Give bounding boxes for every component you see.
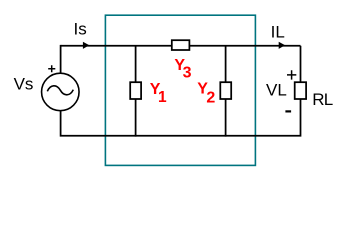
svg-text:3: 3 — [183, 65, 192, 82]
svg-text:2: 2 — [206, 89, 215, 106]
svg-text:Is: Is — [74, 20, 87, 39]
svg-text:IL: IL — [271, 22, 285, 41]
svg-text:Vs: Vs — [14, 75, 34, 94]
svg-text:1: 1 — [158, 89, 167, 106]
svg-text:VL: VL — [266, 81, 287, 100]
svg-text:RL: RL — [312, 90, 332, 109]
